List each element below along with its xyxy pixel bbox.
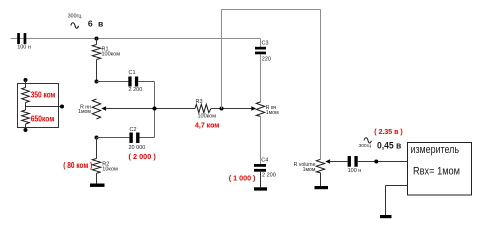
wire: vertical joining C1 and C2 right plates — [154, 82, 156, 138]
output sine symbol — [364, 138, 371, 143]
wire: legend middle section — [25, 103, 27, 111]
svg-text:300гц: 300гц — [68, 14, 82, 20]
svg-text:( 2 000 ): ( 2 000 ) — [129, 152, 157, 161]
svg-text:100ком: 100ком — [102, 52, 121, 58]
junction: R1 / Rнн / C1 node — [95, 80, 99, 84]
wire: R volume wiper to Cout — [330, 161, 348, 163]
svg-text:6 в: 6 в — [88, 19, 105, 29]
meter box — [408, 143, 472, 196]
svg-text:Rвх= 1мом: Rвх= 1мом — [413, 166, 460, 178]
junction: output node — [374, 160, 378, 164]
wire: R3 to Rвч wiper — [211, 108, 252, 110]
wire: Rнн wiper line to R3 — [106, 108, 196, 110]
wire: C4 to ground — [260, 172, 262, 188]
resistor 650ком (legend) — [22, 110, 30, 124]
wire: bypass vertical left — [221, 10, 223, 109]
capacitor C4 2 200 — [254, 164, 266, 172]
wire: legend middle tap — [26, 106, 63, 108]
svg-text:( 2.35 в ): ( 2.35 в ) — [374, 129, 402, 136]
source sine symbol — [71, 23, 79, 29]
capacitor C3 220 — [255, 47, 266, 55]
resistor R3 100ком — [195, 104, 211, 112]
svg-text:350 ком: 350 ком — [31, 90, 56, 100]
svg-text:220: 220 — [262, 57, 271, 63]
potentiometer R вч 1мом — [251, 102, 264, 117]
wire: legend bottom lead — [25, 124, 27, 130]
svg-text:( 80 ком ): ( 80 ком ) — [63, 161, 92, 170]
svg-text:300гц: 300гц — [359, 143, 372, 149]
svg-text:1мом: 1мом — [303, 167, 316, 173]
resistor 350 ком (legend) — [22, 88, 30, 103]
wire: bypass vertical right — [320, 10, 322, 160]
wire: meter lower terminal horizontal — [386, 185, 408, 187]
wire: C2 to right vertical — [140, 137, 155, 139]
svg-text:C4: C4 — [261, 157, 268, 163]
wire: Rвч bottom to C4 — [260, 116, 262, 164]
wire: meter lower terminal vertical — [385, 186, 387, 216]
svg-text:2 200: 2 200 — [262, 172, 276, 178]
junction: input / R1 top — [95, 37, 99, 41]
wire: main input line — [11, 38, 261, 40]
junction: R3 / bypass vertical — [220, 107, 224, 111]
svg-text:2 200: 2 200 — [129, 87, 143, 93]
svg-text:измеритель: измеритель — [411, 144, 460, 156]
potentiometer R volume 1мом — [316, 159, 330, 186]
wire: legend top lead — [25, 80, 27, 88]
svg-text:4,7 ком: 4,7 ком — [195, 123, 219, 130]
capacitor Cin 100 н — [17, 33, 26, 44]
junction: Rнн / R2 / C2 node — [95, 136, 99, 140]
wire: C1 to right vertical — [138, 81, 154, 83]
svg-text:100ком: 100ком — [198, 114, 217, 120]
svg-text:100 н: 100 н — [348, 168, 362, 174]
potentiometer R нн 1мом — [92, 99, 106, 119]
node: legend tap terminal — [60, 105, 64, 109]
junction: wiper line / C1-C2 vertical — [153, 107, 157, 111]
svg-text:650ком: 650ком — [31, 113, 55, 123]
svg-text:C3: C3 — [262, 41, 269, 47]
ground: below C4 — [254, 187, 267, 190]
svg-text:20 000: 20 000 — [129, 145, 146, 151]
legend box (equivalent divider) — [18, 84, 59, 128]
node: legend top terminal — [24, 78, 28, 82]
wire: Cout to meter — [358, 161, 408, 163]
capacitor C2 — [129, 133, 139, 144]
resistor R1 100ком — [92, 39, 100, 82]
capacitor C1 — [128, 77, 138, 87]
svg-text:1мом: 1мом — [78, 109, 91, 115]
svg-text:1мом: 1мом — [266, 110, 279, 116]
ground: below R volume — [315, 186, 329, 189]
svg-text:( 1 000 ): ( 1 000 ) — [229, 173, 256, 182]
svg-text:10ком: 10ком — [102, 166, 118, 172]
wire: bypass top — [222, 9, 321, 11]
wire: node to C1 — [97, 81, 129, 83]
svg-text:C2: C2 — [130, 127, 137, 133]
wire: C3 to Rвч top — [260, 54, 262, 102]
wire: input corner down to C3 — [260, 39, 262, 48]
svg-text:C1: C1 — [129, 70, 136, 76]
ground: below meter — [380, 215, 392, 218]
resistor R2 10ком — [92, 138, 100, 184]
wire: node to C2 — [97, 137, 130, 139]
svg-text:100 н: 100 н — [17, 45, 31, 51]
svg-text:R3: R3 — [196, 99, 203, 105]
ground: below R2 — [90, 184, 105, 187]
capacitor Cout 100 н — [348, 156, 358, 167]
svg-text:0,45 в: 0,45 в — [377, 140, 402, 150]
node: legend bottom terminal — [24, 128, 28, 132]
